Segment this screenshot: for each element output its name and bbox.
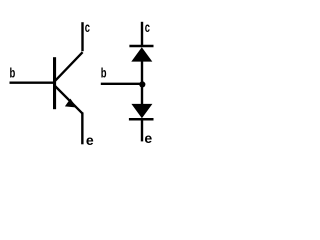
svg-text:b: b [101,65,107,81]
wire: collector diagonal [55,52,83,81]
wire: base lead (left horizontal) [10,81,55,83]
svg-text:c: c [145,19,150,35]
emitter arrow head [65,99,77,108]
wire: collector lead (top vertical) [141,22,143,46]
wire: base lead (right horizontal) [101,83,142,85]
svg-text:e: e [144,130,152,146]
diode D1 triangle (anode, pointing up to collector) [131,47,152,61]
wire: between D1 and junction [141,61,143,84]
diode D2 cathode bar (base-emitter diode) [129,118,154,121]
diode D2 triangle (anode, pointing down to emitter) [131,104,152,118]
transistor body bar [53,57,56,109]
svg-text:e: e [86,132,94,148]
diode D1 cathode bar (base-collector diode) [129,45,153,48]
wire: emitter lead (bottom vertical) [141,121,143,142]
wire: emitter vertical lead [81,112,83,144]
wire: collector vertical lead [81,22,83,51]
wire: between junction and D2 [141,84,143,105]
diode equivalent model (right symbol) [101,19,154,146]
svg-text:c: c [85,19,90,35]
wire: emitter diagonal [55,86,82,113]
transistor Q1 (NPN, left symbol) [10,19,94,148]
svg-text:b: b [10,65,16,81]
junction node dot [139,81,145,87]
